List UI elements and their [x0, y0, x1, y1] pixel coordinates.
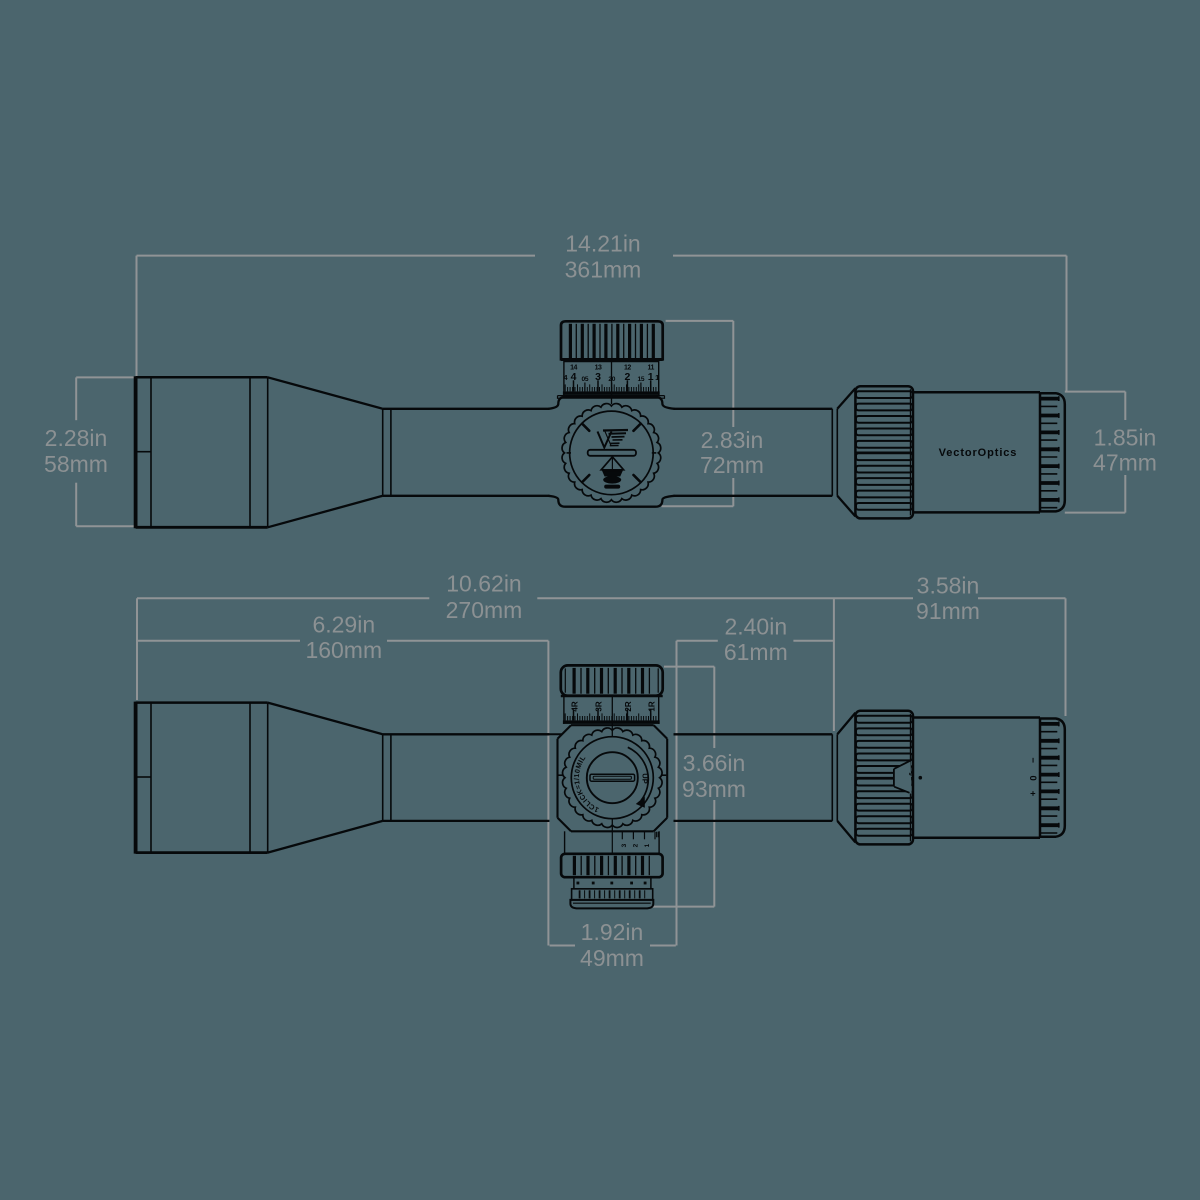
- svg-text:4R: 4R: [570, 701, 579, 711]
- dim 1.92in/49mm: [550, 945, 575, 947]
- rear tube (side view): [674, 408, 833, 410]
- svg-text:15: 15: [638, 376, 645, 383]
- objective bell (top view): [134, 702, 138, 854]
- dim 6.29in/160mm: [137, 640, 300, 642]
- bell taper (side view): [268, 377, 383, 409]
- elevation turret scale band (side view): [563, 359, 565, 395]
- svg-text:361mm: 361mm: [565, 257, 642, 283]
- center index line (top view turret): [611, 697, 613, 737]
- dial tick dashes: [634, 424, 641, 431]
- dim 1.85in/47mm eyepiece diameter: [1124, 392, 1126, 420]
- svg-text:49mm: 49mm: [580, 945, 644, 971]
- side focus dial inner circle: [570, 411, 654, 495]
- dim 2.40in/61mm: [677, 640, 718, 642]
- svg-text:2.40in: 2.40in: [724, 614, 787, 640]
- svg-text:3: 3: [595, 371, 601, 383]
- svg-text:1: 1: [648, 371, 654, 383]
- index dot: [919, 776, 923, 780]
- svg-text:270mm: 270mm: [446, 597, 523, 623]
- dim 2.83in/72mm turret height: [732, 321, 734, 427]
- svg-text:3.58in: 3.58in: [917, 573, 980, 599]
- dim 3.58in/91mm: [978, 597, 1066, 599]
- windage turret stem: [564, 831, 566, 854]
- dim 2.28in/58mm objective diameter: [75, 377, 77, 420]
- windage dotted ring: [574, 877, 651, 889]
- side focus dial scalloped edge: [562, 404, 661, 503]
- svg-text:6.29in: 6.29in: [312, 612, 375, 638]
- power-ring cone (top view): [837, 713, 855, 735]
- UP arrow arc: [628, 747, 648, 800]
- svg-text:58mm: 58mm: [44, 451, 108, 477]
- svg-text:05: 05: [582, 376, 589, 383]
- svg-text:47mm: 47mm: [1093, 450, 1157, 476]
- elevation turret knurled cap (side view): [561, 321, 663, 359]
- svg-text:2: 2: [624, 371, 630, 383]
- bell taper (top view): [268, 703, 383, 735]
- objective bell (side view): [134, 376, 138, 528]
- svg-text:1R: 1R: [647, 701, 656, 711]
- power-ring cone (side view): [837, 388, 855, 409]
- elevation dial middle ring: [571, 737, 653, 819]
- svg-text:3: 3: [621, 843, 628, 847]
- dim 3.66in/93mm: [713, 667, 715, 748]
- svg-text:3R: 3R: [594, 701, 603, 711]
- magnification ring (side view): [855, 386, 913, 518]
- eyepiece tube (side view): [913, 391, 1040, 394]
- svg-text:2.28in: 2.28in: [45, 425, 108, 451]
- svg-text:4: 4: [571, 371, 577, 383]
- dim 14.21in/361mm overall length: [137, 255, 536, 257]
- svg-text:0: 0: [1027, 776, 1038, 781]
- main tube (top view): [383, 733, 550, 735]
- svg-text:61mm: 61mm: [724, 639, 788, 665]
- dim 10.62in/270mm: [137, 597, 429, 599]
- svg-text:2R: 2R: [624, 701, 633, 711]
- svg-text:91mm: 91mm: [916, 598, 980, 624]
- svg-text:1.92in: 1.92in: [581, 919, 644, 945]
- elevation dial inner circle: [587, 752, 638, 803]
- svg-text:+: +: [1027, 791, 1038, 797]
- svg-text:93mm: 93mm: [682, 776, 746, 802]
- rear tube (top view): [674, 733, 833, 735]
- turret saddle octagon (top view): [571, 724, 654, 726]
- svg-text:VectorOptics: VectorOptics: [939, 447, 1018, 459]
- svg-text:2: 2: [633, 843, 640, 847]
- turret saddle (side view): [548, 397, 674, 409]
- svg-text:14.21in: 14.21in: [565, 231, 640, 257]
- emblem sailboat: [601, 457, 623, 470]
- dim shared verticals: [547, 641, 549, 946]
- elevation scale band (top view): [563, 696, 565, 724]
- eyepiece end knurl (top view): [1040, 719, 1065, 837]
- svg-text:3.66in: 3.66in: [683, 750, 746, 776]
- svg-text:160mm: 160mm: [305, 637, 382, 663]
- Vector Optics wing emblem: [598, 432, 612, 448]
- mag ring index notch (top view): [894, 761, 912, 794]
- emblem crossbar: [588, 450, 636, 456]
- svg-text:−: −: [1027, 757, 1038, 763]
- elevation turret knurled drum (top view): [561, 665, 663, 695]
- main tube (side view): [383, 408, 550, 410]
- saddle side ticks (top view): [559, 774, 564, 776]
- svg-text:1: 1: [655, 373, 659, 382]
- turret base flange (side view): [558, 395, 665, 397]
- elevation dial scalloped edge (top view): [563, 728, 663, 828]
- windage ribbed ring: [572, 889, 653, 900]
- svg-text:10.62in: 10.62in: [446, 571, 521, 597]
- eyepiece tube (top view): [913, 716, 1040, 719]
- windage knurled drum: [561, 854, 663, 877]
- svg-text:UP: UP: [641, 773, 650, 783]
- magnification ring (top view): [855, 711, 913, 845]
- svg-text:1.85in: 1.85in: [1094, 425, 1157, 451]
- coin slot: [590, 774, 635, 781]
- svg-text:2.83in: 2.83in: [701, 427, 764, 453]
- turret index line (side view): [611, 362, 613, 404]
- eyepiece end knurl (side view): [1040, 393, 1065, 511]
- svg-text:72mm: 72mm: [700, 452, 764, 478]
- windage bottom cap: [570, 900, 653, 909]
- svg-text:1: 1: [644, 843, 651, 847]
